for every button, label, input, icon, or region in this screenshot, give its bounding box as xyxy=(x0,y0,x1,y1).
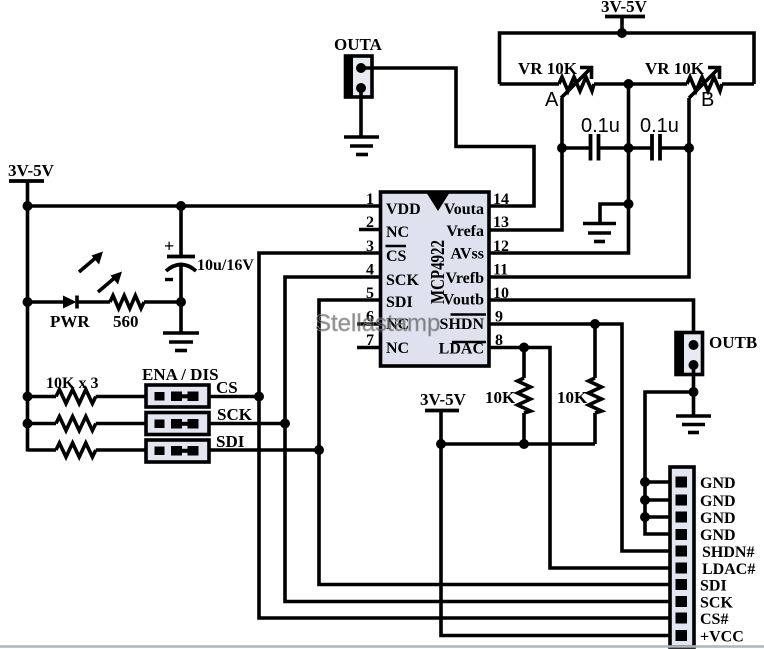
power rail 3V-5V middle xyxy=(420,390,467,444)
svg-text:SHDN: SHDN xyxy=(440,316,485,333)
wire CS vertical pin3 to CS# xyxy=(259,253,682,618)
wire pin9 SHDN to SHDN# xyxy=(489,324,682,551)
node junction GND3 xyxy=(640,512,650,522)
node junction SDI xyxy=(314,445,324,455)
svg-text:+VCC: +VCC xyxy=(700,629,744,646)
jumper ENA/DIS SDI xyxy=(146,440,209,462)
svg-text:OUTB: OUTB xyxy=(709,333,757,352)
svg-text:10u/16V: 10u/16V xyxy=(197,257,254,274)
svg-text:3V-5V: 3V-5V xyxy=(8,161,55,180)
svg-text:3V-5V: 3V-5V xyxy=(601,0,648,16)
svg-text:3: 3 xyxy=(366,238,374,255)
wire SDI jumper to bus xyxy=(209,448,319,452)
svg-text:GND: GND xyxy=(700,475,736,492)
node junction GND1 xyxy=(640,477,650,487)
node junction pin9/10K xyxy=(590,319,600,329)
svg-text:B: B xyxy=(701,89,714,111)
node junction top rail xyxy=(617,28,627,38)
svg-text:Stellastamp: Stellastamp xyxy=(315,310,440,337)
wire GND row1 xyxy=(645,480,682,484)
svg-text:GND: GND xyxy=(700,493,736,510)
svg-text:PWR: PWR xyxy=(50,312,90,331)
svg-text:CS#: CS# xyxy=(700,611,728,628)
svg-text:Voutb: Voutb xyxy=(443,292,484,309)
svg-text:CS: CS xyxy=(216,378,238,397)
svg-text:0.1u: 0.1u xyxy=(640,115,679,137)
svg-text:NC: NC xyxy=(386,340,409,357)
power rail 3V-5V top-left xyxy=(8,161,55,206)
svg-text:ENA / DIS: ENA / DIS xyxy=(142,365,219,384)
pin 6 NC xyxy=(357,322,381,326)
wire 10K bottoms to 3V-5V xyxy=(441,442,595,446)
wire AVss middle vertical xyxy=(489,84,629,253)
node junction GND2 xyxy=(640,495,650,505)
jumper OUTB xyxy=(675,331,758,376)
svg-text:4: 4 xyxy=(366,262,374,279)
svg-text:10K: 10K xyxy=(557,388,588,407)
pin 7 NC xyxy=(357,346,381,350)
node junction cap row left xyxy=(557,143,567,153)
svg-text:1: 1 xyxy=(366,191,374,208)
svg-text:SCK: SCK xyxy=(217,405,253,424)
svg-text:OUTA: OUTA xyxy=(334,35,383,54)
pin 2 NC xyxy=(359,228,381,232)
svg-text:13: 13 xyxy=(493,214,509,231)
svg-text:Vouta: Vouta xyxy=(444,201,484,218)
svg-text:SCK: SCK xyxy=(700,595,733,612)
node junction VDD/left bus xyxy=(23,201,33,211)
node junction AVss ground tap xyxy=(624,199,634,209)
svg-text:12: 12 xyxy=(493,238,509,255)
resistor 10K (SDI pullup) xyxy=(28,443,146,457)
wire OUTA to pin14 xyxy=(361,68,534,206)
wire OUTB to ground node xyxy=(692,365,696,392)
node junction SCK xyxy=(280,419,290,429)
svg-text:Vrefa: Vrefa xyxy=(446,223,484,240)
page border bottom xyxy=(0,645,764,648)
svg-text:VDD: VDD xyxy=(386,201,421,218)
ground below 10u cap xyxy=(163,302,199,351)
node junction pots center xyxy=(624,79,634,89)
ground AVss xyxy=(583,204,629,242)
svg-text:GND: GND xyxy=(700,510,736,527)
svg-text:LDAC#: LDAC# xyxy=(702,561,755,578)
node junction cap top xyxy=(176,201,186,211)
jumper ENA/DIS SCK xyxy=(146,413,209,435)
wire SCK jumper to bus xyxy=(209,422,285,426)
wire pin8 LDAC to LDAC# xyxy=(489,348,682,569)
svg-text:SDI: SDI xyxy=(216,432,245,451)
resistor 10K (SCK pullup) xyxy=(28,417,146,431)
wire GND row3 xyxy=(645,515,682,519)
wire pot A wiper to Vrefa pin13 xyxy=(489,98,562,230)
node junction CS xyxy=(254,392,264,402)
connector J1 xyxy=(670,467,694,647)
svg-text:3V-5V: 3V-5V xyxy=(420,390,467,409)
svg-text:SDI: SDI xyxy=(386,294,413,311)
svg-text:2: 2 xyxy=(366,214,374,231)
resistor 10K (CS pullup) xyxy=(28,390,146,404)
node junction cap bottom xyxy=(176,297,186,307)
potentiometer VR 10K B xyxy=(629,59,755,111)
wire SCK vertical pin4 to SCK xyxy=(285,277,682,602)
node junction 10K1 bottom xyxy=(519,439,529,449)
node junction VCC stem xyxy=(436,439,446,449)
svg-text:CS: CS xyxy=(386,248,407,265)
ground below OUTA xyxy=(344,88,379,155)
svg-text:10K: 10K xyxy=(485,388,516,407)
jumper OUTA xyxy=(334,35,383,99)
wire left bus vertical xyxy=(26,206,30,452)
svg-text:SCK: SCK xyxy=(386,272,419,289)
resistor 10K (LDAC pullup) xyxy=(485,348,531,445)
wire CS jumper to bus xyxy=(209,395,259,399)
node junction pin8/10K xyxy=(519,343,529,353)
node junction SCK row left xyxy=(23,419,33,429)
capacitor 0.1u (left) xyxy=(562,115,629,161)
potentiometer VR 10K A xyxy=(500,59,629,111)
svg-text:5: 5 xyxy=(366,285,374,302)
IC U1 MCP4922 xyxy=(381,192,490,366)
svg-text:GND: GND xyxy=(700,527,736,544)
ground below OUTB xyxy=(676,392,711,433)
svg-text:NC: NC xyxy=(386,224,409,241)
svg-text:0.1u: 0.1u xyxy=(581,115,620,137)
node junction OUTB ground xyxy=(689,387,699,397)
LED PWR xyxy=(28,252,123,332)
svg-text:SDI: SDI xyxy=(700,578,727,595)
capacitor 10u/16V xyxy=(164,206,254,302)
svg-text:VR 10K: VR 10K xyxy=(645,59,705,78)
node junction cap row right xyxy=(684,143,694,153)
capacitor 0.1u (right) xyxy=(629,115,690,161)
resistor 560 xyxy=(77,296,181,332)
wire OUTB ground to GND pins xyxy=(645,392,694,534)
svg-text:SHDN#: SHDN# xyxy=(702,544,754,561)
svg-text:A: A xyxy=(545,89,559,111)
wire pot B wiper to Vrefb pin11 xyxy=(489,98,689,277)
svg-text:14: 14 xyxy=(493,191,509,208)
svg-text:Vrefb: Vrefb xyxy=(445,270,484,287)
wire VDD rail pin1 xyxy=(28,204,382,208)
svg-text:AVss: AVss xyxy=(451,246,485,263)
power rail 3V-5V top-right xyxy=(601,0,648,33)
svg-text:11: 11 xyxy=(493,262,508,279)
jumper ENA/DIS CS xyxy=(146,385,209,407)
node junction CS row left xyxy=(23,392,33,402)
svg-text:+: + xyxy=(164,236,174,256)
svg-text:VR 10K: VR 10K xyxy=(518,59,578,78)
wire pin10 Voutb to OUTB xyxy=(489,300,694,345)
wire top rail xyxy=(500,33,755,84)
node junction cap row mid xyxy=(624,143,634,153)
svg-text:560: 560 xyxy=(113,312,139,331)
wire GND row2 xyxy=(645,498,682,502)
wire VCC to +VCC pin xyxy=(441,444,682,636)
node junction LED row left xyxy=(23,297,33,307)
wire SDI vertical pin5 to SDI xyxy=(319,300,682,585)
resistor 10K (SHDN pullup) xyxy=(557,324,602,444)
